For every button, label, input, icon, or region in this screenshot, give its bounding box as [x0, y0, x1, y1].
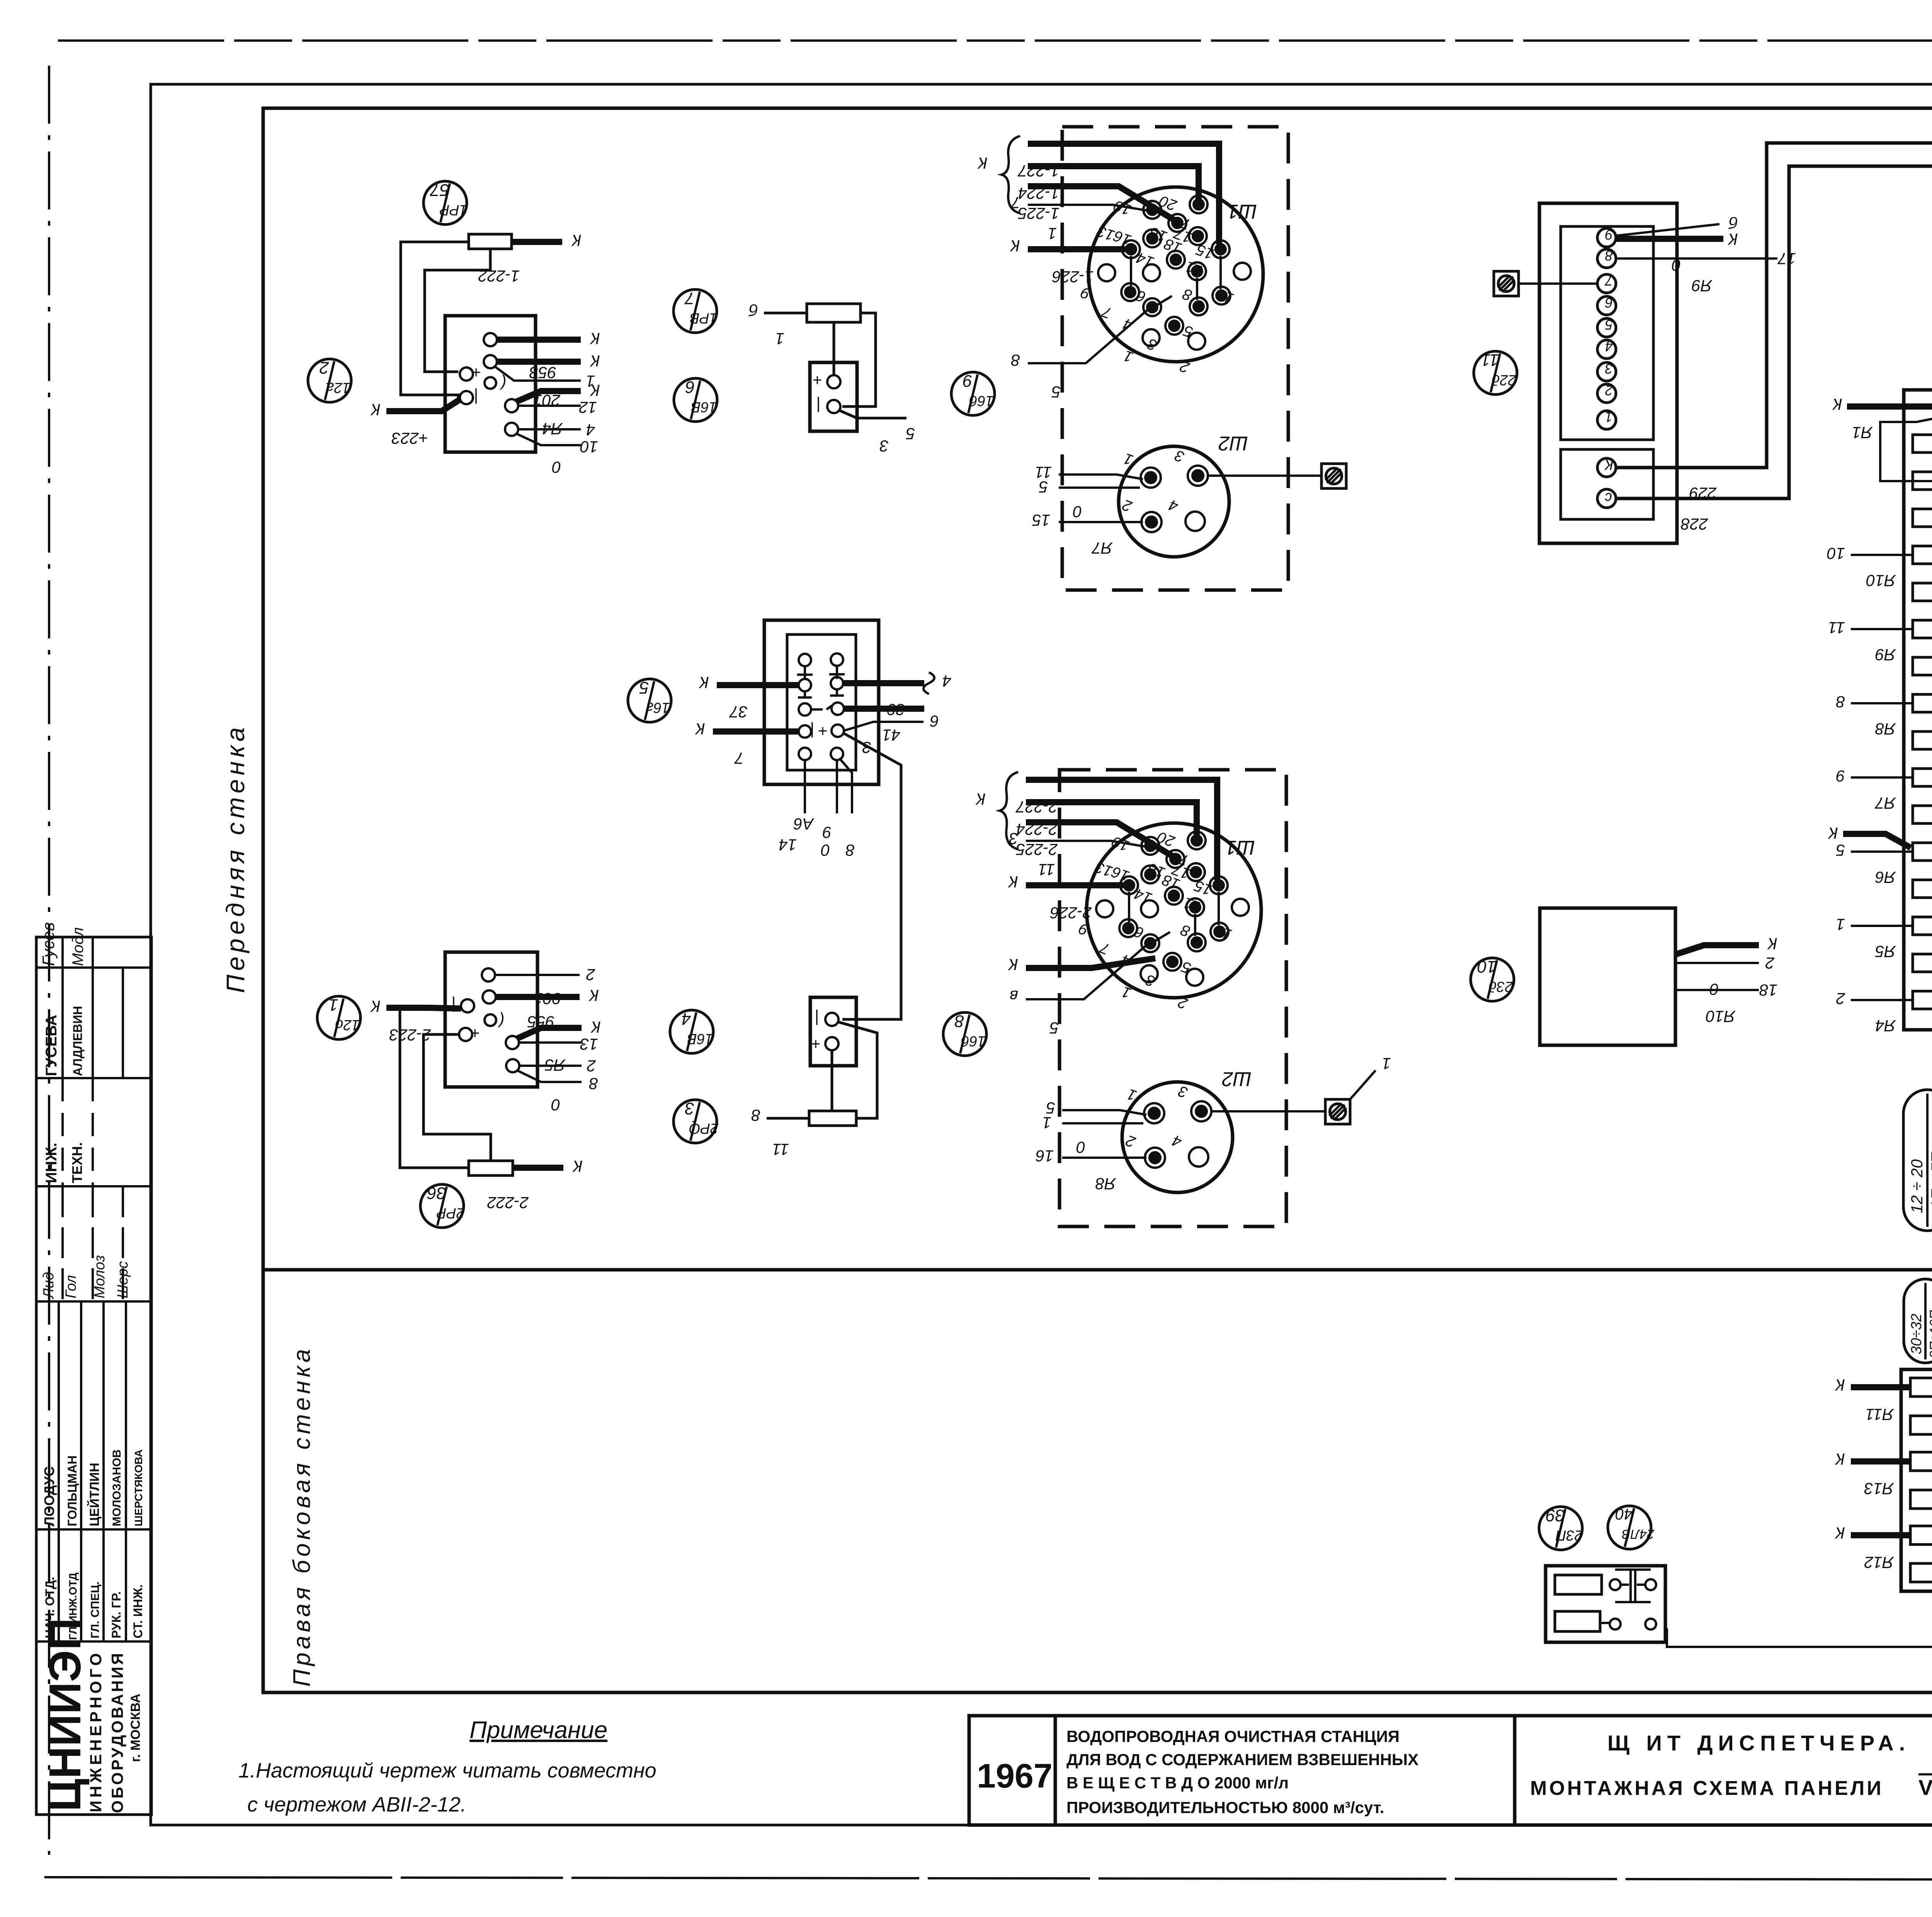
svg-text:16б: 16б [969, 393, 994, 409]
svg-text:9: 9 [1836, 767, 1845, 785]
svg-text:8: 8 [1836, 693, 1845, 711]
svg-text:Шерс: Шерс [115, 1261, 131, 1298]
svg-text:ГОЛЬЦМАН: ГОЛЬЦМАН [65, 1455, 79, 1526]
svg-text:Правая боковая стенка: Правая боковая стенка [289, 1345, 315, 1687]
svg-text:ВОДОПРОВОДНАЯ ОЧИСТНАЯ СТАНЦ: ВОДОПРОВОДНАЯ ОЧИСТНАЯ СТАНЦИЯ [1066, 1727, 1400, 1745]
svg-text:2-226: 2-226 [1050, 904, 1092, 922]
svg-text:Ш2: Ш2 [1222, 1068, 1252, 1090]
LEFT-MARGIN [36, 723, 315, 1815]
wire 3 11 to lower Ш1 pin 19 [1009, 830, 1146, 879]
svg-text:17: 17 [1777, 250, 1796, 268]
wire from А6 pin to lower minus box [842, 733, 901, 1019]
svg-text:К: К [590, 330, 600, 348]
svg-text:К: К [1728, 230, 1738, 248]
svg-text:2: 2 [586, 966, 595, 984]
svg-text:1: 1 [1605, 409, 1613, 425]
svg-text:|: | [816, 396, 821, 415]
svg-text:Я5: Я5 [1875, 942, 1896, 961]
svg-text:23д: 23д [1488, 978, 1513, 995]
svg-text:Молоз: Молоз [92, 1255, 108, 1298]
wire potentiometer right to minus pin [842, 313, 876, 407]
wire С terminal to bus [1616, 166, 1932, 498]
wire lower Ш2 pin 3 to earth screw [1211, 1110, 1325, 1112]
wire 16 Я8 to lower Ш2 pin 2 [1036, 1147, 1146, 1193]
small device block bottom [1546, 1566, 1665, 1642]
svg-text:Гусев: Гусев [39, 922, 58, 966]
relay 2 pins [459, 968, 519, 1072]
balloon 10/23д [1471, 957, 1514, 1001]
svg-text:АЛДЛЕВИН: АЛДЛЕВИН [71, 1006, 85, 1076]
lower block resistors [1910, 1378, 1932, 1582]
svg-text:Я7: Я7 [1091, 539, 1113, 557]
svg-text:Я12: Я12 [1864, 1553, 1894, 1572]
svg-text:1: 1 [1043, 1114, 1051, 1132]
svg-text:2: 2 [1836, 990, 1845, 1008]
svg-text:ШЕРСТЯКОВА: ШЕРСТЯКОВА [133, 1449, 145, 1526]
wire potentiometer wiper down [833, 322, 835, 382]
small block pins and bars [1600, 1570, 1656, 1630]
capsule label 30÷32 8П÷10П [1904, 1279, 1932, 1363]
wire 1-225 to Ш1 [1018, 186, 1175, 223]
wire labels 229 228 [1680, 484, 1717, 533]
svg-text:К: К [370, 401, 381, 419]
svg-text:К: К [1835, 1450, 1845, 1468]
svg-text:11: 11 [1828, 619, 1845, 637]
svg-text:Я9: Я9 [1875, 646, 1896, 664]
terminal block outer box [1539, 203, 1677, 543]
wire К terminal to bus [1616, 143, 1932, 468]
svg-text:К: К [590, 381, 600, 400]
svg-text:14: 14 [779, 836, 797, 854]
svg-text:ГУСЕВА: ГУСЕВА [43, 1015, 60, 1076]
svg-text:Передняя стенка: Передняя стенка [221, 723, 250, 993]
svg-text:К: К [572, 1157, 583, 1175]
wires б К 0 from terminal 9 [1616, 214, 1738, 274]
plus minus box (upper) [810, 362, 857, 431]
relay 2 wire К Я5 13 [517, 1018, 601, 1074]
device А6 inner box [787, 634, 856, 770]
connector Ш1 (upper) [1088, 187, 1263, 362]
svg-text:0: 0 [551, 1096, 560, 1114]
svg-text:СТ. ИНЖ.: СТ. ИНЖ. [131, 1584, 145, 1638]
svg-text:г. МОСКВА: г. МОСКВА [128, 1694, 143, 1762]
svg-text:1967: 1967 [977, 1757, 1053, 1795]
svg-text:1П ÷ 7П: 1П ÷ 7П [1929, 1152, 1932, 1209]
top trim line [58, 39, 1932, 42]
wire 1 leader from lower screw [1350, 1055, 1391, 1099]
svg-text:7: 7 [1604, 273, 1613, 289]
svg-text:16: 16 [1036, 1147, 1054, 1165]
wire 8 5 to Ш1 pin 4 [1011, 309, 1148, 401]
NOTES [238, 1717, 656, 1816]
svg-text:|: | [815, 1009, 819, 1028]
svg-text:Я9: Я9 [1692, 277, 1713, 295]
svg-text:3: 3 [880, 437, 889, 455]
А6 plus minus [810, 722, 828, 740]
wire Ш2 pin 3 to earth screw [1208, 475, 1321, 477]
balloon 4/16В [670, 1009, 713, 1053]
svg-text:3: 3 [1605, 361, 1613, 377]
connector Ш2 (upper) [1119, 432, 1248, 557]
wires К 2 0 18 Я10 from device 23д [1675, 935, 1777, 1026]
svg-text:РУК. ГР.: РУК. ГР. [109, 1591, 123, 1638]
svg-text:ИНЖ.: ИНЖ. [43, 1143, 60, 1183]
signature stamp table [36, 937, 151, 1815]
balloon 11/22д [1474, 350, 1517, 395]
svg-text:5: 5 [1605, 317, 1613, 333]
svg-text:1: 1 [329, 995, 338, 1014]
svg-text:8: 8 [1605, 248, 1613, 264]
svg-text:57: 57 [430, 180, 449, 199]
title block column dividers [1055, 1716, 1932, 1825]
svg-text:ИНЖЕНЕРНОГО: ИНЖЕНЕРНОГО [87, 1650, 105, 1812]
relay 1 pins [460, 333, 518, 436]
wire К 1-222 from resistor right [478, 231, 582, 285]
svg-text:40: 40 [1616, 1505, 1633, 1522]
svg-text:228: 228 [1680, 515, 1708, 533]
small block resistors [1555, 1575, 1602, 1631]
svg-text:4: 4 [586, 421, 595, 439]
left trim dash-dot line [48, 66, 50, 1855]
wire К 2-227 to lower Ш1 [1015, 780, 1217, 880]
svg-text:11: 11 [772, 1140, 789, 1158]
connector Ш1 (lower) [1087, 823, 1261, 998]
strip left loop row1 to row2 [1880, 410, 1932, 481]
svg-text:8П÷10П: 8П÷10П [1927, 1310, 1932, 1358]
resistor (lower potentiometer) [809, 1111, 856, 1126]
svg-text:2: 2 [320, 358, 329, 377]
svg-text:4: 4 [942, 672, 951, 690]
wire К 1-227 to Ш1 [1017, 144, 1219, 244]
svg-text:К: К [370, 997, 381, 1015]
svg-text:б: б [1728, 214, 1738, 232]
relay 1 wire К Я4 12 [516, 381, 600, 438]
relay 2 wire 2 901 [495, 966, 595, 1008]
wires 11 5 0 to Ш2 pin 1 [1035, 463, 1143, 521]
screw terminal left of block [1494, 271, 1519, 296]
wire screw to terminal 7 [1519, 282, 1597, 285]
wire relay 2 left pin to resistor left [400, 1009, 469, 1168]
wire К 37 to А6 [699, 674, 799, 721]
svg-text:229: 229 [1689, 484, 1717, 502]
wire 1-224 to Ш1 [1018, 166, 1199, 202]
svg-text:в: в [1010, 987, 1018, 1005]
relay 1 wire К / 1 201 [495, 352, 600, 410]
svg-text:ТЕХН.: ТЕХН. [69, 1142, 85, 1183]
svg-text:Ш1: Ш1 [1225, 836, 1255, 859]
svg-text:5: 5 [1049, 1019, 1059, 1037]
svg-text:К: К [1828, 824, 1838, 842]
svg-text:18: 18 [1759, 981, 1777, 999]
potentiometer resistor (б/1) [807, 304, 861, 322]
terminals 1-9 circles [1597, 227, 1616, 429]
dashed mounting box (lower) [1060, 770, 1286, 1226]
svg-text:А6: А6 [793, 815, 815, 833]
drawing box (panel outline) [263, 108, 1932, 1692]
svg-text:Я10: Я10 [1866, 572, 1896, 590]
plus minus box (lower) [810, 997, 856, 1066]
lower block left wires К Я11 Я13 Я12 [1835, 1376, 1910, 1572]
svg-text:2: 2 [587, 1057, 596, 1075]
lower box pins [811, 1009, 838, 1053]
svg-text:Я10: Я10 [1706, 1007, 1736, 1026]
title block outline [969, 1716, 1932, 1825]
svg-text:11: 11 [1481, 350, 1499, 369]
svg-text:ЛООДУС: ЛООДУС [41, 1466, 57, 1526]
wire lower plus pin down to resistor [831, 1050, 833, 1111]
svg-text:2РР: 2РР [436, 1205, 464, 1221]
svg-text:1-226: 1-226 [1052, 268, 1094, 286]
svg-text:7: 7 [684, 289, 694, 308]
capsule label 12÷20 1П÷7П [1903, 1090, 1932, 1231]
svg-text:8: 8 [589, 1075, 598, 1093]
svg-text:36: 36 [427, 1184, 446, 1203]
svg-text:К: К [1835, 1524, 1845, 1542]
svg-text:МОНТАЖНАЯ СХЕМА ПАНЕЛИ: МОНТАЖНАЯ СХЕМА ПАНЕЛИ [1530, 1777, 1884, 1800]
svg-text:1-225: 1-225 [1018, 204, 1060, 223]
svg-text:1: 1 [776, 330, 784, 348]
svg-text:10: 10 [1827, 544, 1845, 563]
relay 1 plus minus marks [471, 364, 506, 407]
svg-text:15: 15 [1032, 511, 1050, 529]
svg-text:9: 9 [823, 823, 832, 842]
svg-text:5: 5 [1836, 841, 1845, 859]
svg-text:8: 8 [954, 1012, 964, 1031]
connector Ш2 (lower) [1122, 1068, 1252, 1192]
svg-text:К: К [1832, 395, 1842, 413]
dashed mounting box (upper) [1062, 127, 1288, 590]
svg-text:16В: 16В [691, 399, 717, 415]
А6 contact marks [797, 666, 845, 709]
earth screw terminal (lower) [1325, 1099, 1350, 1124]
svg-text:16г: 16г [646, 699, 670, 716]
svg-text:б: б [748, 301, 758, 319]
svg-text:6: 6 [1605, 295, 1613, 311]
svg-text:12о: 12о [335, 1017, 359, 1033]
svg-text:2-222: 2-222 [487, 1194, 529, 1212]
svg-text:1: 1 [1048, 225, 1057, 243]
svg-text:0: 0 [552, 458, 561, 476]
svg-text:5: 5 [1039, 478, 1048, 496]
svg-text:37: 37 [729, 703, 748, 721]
wire resistor left to relay minus pin [401, 242, 469, 398]
svg-text:+: + [813, 371, 822, 390]
balloon 5/16г [628, 678, 671, 722]
svg-text:11: 11 [1038, 861, 1055, 879]
svg-text:Я4: Я4 [1875, 1017, 1896, 1035]
svg-text:К: К [1835, 1376, 1845, 1394]
svg-text:6: 6 [685, 378, 695, 396]
wire 41 from А6 [844, 709, 924, 744]
svg-text:8: 8 [845, 841, 855, 859]
svg-text:+: + [470, 1024, 480, 1043]
balloon 3/2РQ [673, 1099, 719, 1143]
bottom trim line [44, 1877, 1932, 1880]
svg-text:|: | [810, 722, 815, 740]
svg-text:+223: +223 [391, 429, 428, 447]
balloon 9/16б [951, 371, 995, 415]
svg-text:6: 6 [930, 712, 939, 730]
lower block right chain [1667, 1387, 1932, 1647]
svg-text:К: К [571, 231, 582, 250]
svg-text:2-225: 2-225 [1016, 840, 1058, 859]
strip left wires with labels [1827, 544, 1913, 1035]
svg-text:Я6: Я6 [1875, 868, 1896, 886]
wire 3 5 from minus pin [839, 410, 915, 455]
svg-text:К: К [975, 790, 986, 808]
svg-text:К: К [590, 352, 600, 370]
svg-text:1.Настоящий чертеж читать с: 1.Настоящий чертеж читать совместно [238, 1759, 656, 1782]
balloon 57/1РР [423, 180, 468, 225]
svg-text:ОБОРУДОВАНИЯ: ОБОРУДОВАНИЯ [108, 1651, 126, 1813]
svg-text:К: К [1008, 873, 1018, 891]
terminal block inner box К С [1561, 449, 1653, 519]
svg-text:Примечание: Примечание [469, 1717, 607, 1744]
svg-text:К: К [1008, 956, 1018, 974]
svg-text:8: 8 [751, 1106, 760, 1124]
balloon 1/12о [317, 995, 361, 1039]
balloon 8/16б [943, 1012, 986, 1056]
svg-text:12: 12 [579, 398, 597, 417]
strip resistors [1913, 435, 1932, 1009]
svg-text:ЦЕЙТЛИН: ЦЕЙТЛИН [87, 1463, 102, 1526]
svg-text:0: 0 [1073, 503, 1082, 521]
wires 5 1 0 to lower Ш2 pin 1 [1043, 1099, 1146, 1157]
device А6 outer box [764, 620, 879, 784]
svg-text:К: К [1010, 237, 1020, 255]
svg-text:9: 9 [1605, 227, 1613, 243]
А6 pins [799, 653, 844, 760]
svg-text:16В: 16В [687, 1031, 713, 1047]
svg-text:Ш2: Ш2 [1218, 432, 1248, 454]
terminal К circle [1597, 456, 1616, 477]
svg-text:7: 7 [1010, 194, 1020, 212]
relay box 1 [445, 316, 536, 452]
svg-text:Я11: Я11 [1866, 1405, 1894, 1424]
balloon 2/12а [308, 358, 351, 402]
wire 39 }4 from А6 [843, 672, 951, 719]
svg-text:Лид: Лид [41, 1272, 57, 1300]
svg-text:+: + [811, 1035, 821, 1053]
svg-text:0: 0 [821, 841, 830, 859]
strip top row К-К contacts [1832, 390, 1932, 443]
resistor 2-222 (lower left) [469, 1161, 513, 1175]
relay box 2 [445, 952, 537, 1087]
wire lower resistor right up to minus pin [838, 1022, 877, 1118]
wire 8 11 to lower resistor [751, 1106, 809, 1158]
wire К 7 to А6 [695, 720, 799, 767]
svg-text:16б: 16б [961, 1033, 986, 1049]
svg-text:Я8: Я8 [1095, 1175, 1116, 1193]
balloon 39/23П [1539, 1506, 1583, 1550]
svg-text:8: 8 [1011, 351, 1020, 369]
svg-text:2: 2 [1765, 954, 1775, 972]
svg-text:ЦНИИЭП: ЦНИИЭП [40, 1618, 90, 1812]
wire К to lower Ш1 pin 3 [1008, 956, 1155, 974]
svg-text:24ЛВ: 24ЛВ [1622, 1527, 1655, 1541]
svg-text:23П: 23П [1556, 1527, 1583, 1543]
wire Я9 17 from terminal 8 [1616, 250, 1796, 295]
svg-text:Я13: Я13 [1864, 1480, 1894, 1498]
terminal С circle [1597, 489, 1616, 508]
wire К 1-223 into relay 1 [370, 400, 460, 447]
svg-text:22д: 22д [1492, 372, 1516, 388]
wire К 2-222 from resistor right [487, 1157, 583, 1212]
svg-text:12а: 12а [326, 379, 350, 396]
balloon 7/1РВ [673, 289, 718, 333]
earth screw terminal (upper) [1321, 464, 1346, 488]
svg-text:953: 953 [529, 364, 556, 382]
svg-text:+: + [818, 722, 828, 740]
relay contact strip outer box [1904, 390, 1932, 1030]
svg-text:В Е Щ Е С Т В Д О 2000 мг: В Е Щ Е С Т В Д О 2000 мг/л [1066, 1774, 1289, 1792]
svg-text:К: К [1767, 935, 1777, 953]
svg-text:Я1: Я1 [1852, 424, 1873, 442]
svg-text:3: 3 [685, 1099, 694, 1118]
svg-text:с: с [1605, 490, 1612, 506]
wire б 1 to potentiometer [748, 301, 807, 348]
wire relay 2 plus pin to resistor [423, 1034, 491, 1161]
svg-text:V: V [1918, 1775, 1932, 1800]
svg-text:К: К [699, 674, 709, 692]
svg-text:К: К [588, 987, 599, 1005]
wall divider line [263, 1268, 1932, 1272]
relay 2 wire 2 8 0 [517, 1057, 598, 1114]
svg-text:с чертежом АВII-2-12.: с чертежом АВII-2-12. [247, 1793, 466, 1816]
svg-text:К: К [1604, 456, 1614, 473]
lower relay block R11 R13 R12 [1901, 1369, 1932, 1591]
wire 15 Я7 to Ш2 pin 2 [1032, 511, 1143, 557]
wire К 1-226 to Ш1 pin 13 [1010, 237, 1125, 286]
device box 23д [1540, 908, 1675, 1045]
terminal block inner box 1-9 [1561, 226, 1653, 440]
wire в 5 to lower Ш1 pin 4 [1010, 945, 1146, 1037]
relay 1 wire 4 10 0 [516, 421, 598, 476]
svg-text:4: 4 [1605, 338, 1613, 354]
wire 7 1 to Ш1 pin 19 [1010, 194, 1148, 243]
balloon 6/16В [674, 378, 717, 422]
wire 6 3 from А6 [844, 712, 939, 757]
plus minus box pins [813, 371, 840, 415]
svg-text:9: 9 [963, 371, 972, 390]
svg-text:0: 0 [1076, 1138, 1085, 1157]
svg-text:2РQ: 2РQ [689, 1120, 719, 1136]
svg-text:5: 5 [1051, 383, 1061, 401]
svg-text:1РВ: 1РВ [690, 310, 718, 326]
svg-text:7: 7 [734, 749, 744, 767]
TITLE-BLOCK [969, 1716, 1932, 1873]
svg-text:10: 10 [580, 438, 598, 456]
svg-text:+: + [471, 364, 481, 382]
svg-text:12 ÷ 20: 12 ÷ 20 [1908, 1159, 1926, 1213]
svg-text:МОЛОЗАНОВ: МОЛОЗАНОВ [111, 1449, 123, 1526]
svg-text:13: 13 [580, 1035, 598, 1053]
svg-text:5: 5 [906, 425, 915, 443]
А6 bottom pin wires 14 А6 9 0 8 [779, 758, 855, 859]
svg-text:1: 1 [1382, 1055, 1391, 1073]
svg-text:3: 3 [1009, 830, 1018, 848]
svg-text:|: | [474, 388, 478, 407]
svg-text:39: 39 [1546, 1506, 1565, 1525]
svg-text:1: 1 [1836, 915, 1845, 934]
svg-text:30÷32: 30÷32 [1908, 1314, 1925, 1354]
svg-text:Я7: Я7 [1874, 794, 1896, 812]
svg-text:Модл: Модл [70, 927, 87, 966]
brace К for three wires [977, 136, 1020, 213]
svg-text:Щ ИТ ДИСПЕТЧЕРА.: Щ ИТ ДИСПЕТЧЕРА. [1607, 1731, 1910, 1755]
svg-text:К: К [590, 1018, 601, 1036]
svg-text:41: 41 [882, 726, 900, 744]
